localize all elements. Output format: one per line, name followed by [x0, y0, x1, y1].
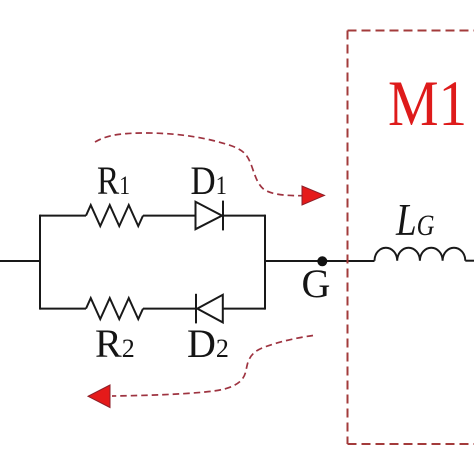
top dashed arrow curve: [95, 133, 302, 196]
bottom dashed arrow curve: [112, 336, 313, 397]
top arrowhead: [302, 186, 325, 205]
M1 box dashed left edge: [347, 31, 349, 445]
svg-text:M1: M1: [388, 68, 467, 140]
wire right bus: [264, 215, 266, 310]
wire bottom-left segment: [40, 308, 86, 310]
wire middle to inductor: [265, 260, 375, 262]
M1 box dashed top edge: [348, 30, 474, 32]
wire top-left segment: [40, 215, 86, 217]
resistor R2: [86, 298, 143, 319]
M1 box dashed bottom edge: [348, 443, 474, 445]
wire inductor right: [465, 260, 474, 262]
node G dot: [317, 256, 327, 266]
wire left stub: [0, 260, 40, 262]
svg-text:G: G: [302, 261, 331, 306]
wire between R2 and D2: [143, 308, 196, 310]
inductor LG: [375, 248, 466, 261]
resistor R1: [86, 205, 143, 226]
wire between R1 and D1: [143, 215, 196, 217]
diode D1: [196, 201, 224, 231]
wire D1 to right bus: [223, 215, 265, 217]
bottom arrowhead: [88, 385, 110, 408]
wire D2 to right bus: [223, 308, 265, 310]
diode D2: [196, 294, 223, 324]
wire left bus: [39, 215, 41, 310]
